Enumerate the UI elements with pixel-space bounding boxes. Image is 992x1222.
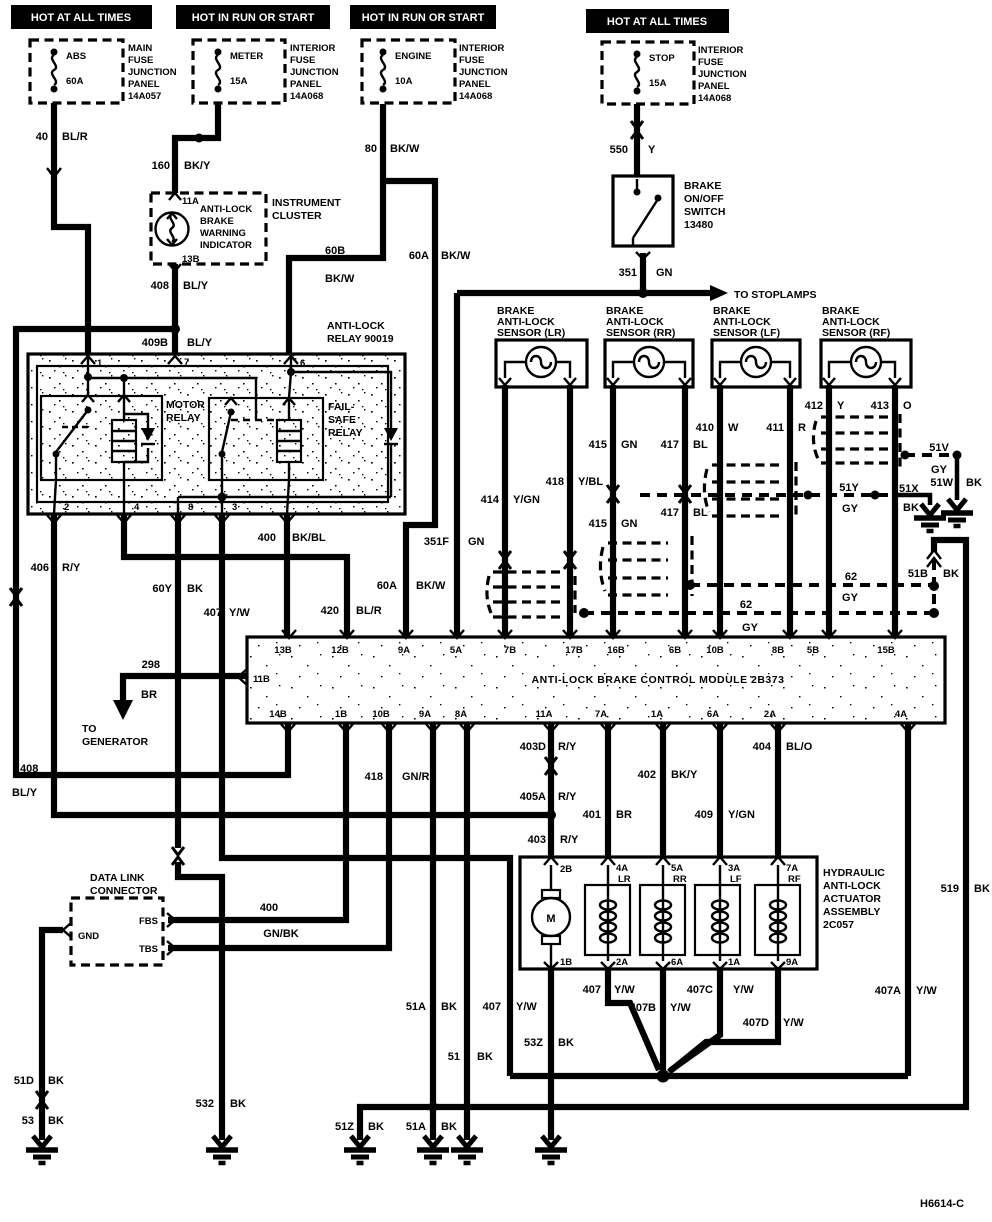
- solenoid valve LR: [585, 865, 630, 961]
- svg-text:8A: 8A: [455, 709, 467, 720]
- motor relay diode: [124, 414, 155, 462]
- wire 400 BK/BL from relay pin 5 to module pin 13B: [258, 514, 326, 637]
- svg-text:11B: 11B: [253, 674, 270, 685]
- svg-text:5A: 5A: [450, 645, 462, 656]
- wire 51A BK module pin 9A to ground: [406, 723, 457, 1140]
- relay pin 4: [117, 502, 140, 523]
- actuator pin 7A RF: [771, 857, 801, 885]
- wire 415 GN sensor RR to module pin 16B: [589, 385, 638, 637]
- svg-text:15A: 15A: [230, 76, 248, 87]
- label BRAKE ON/OFF SWITCH 13480: [684, 180, 725, 231]
- svg-text:60A: 60A: [409, 250, 429, 262]
- svg-text:BK: BK: [974, 883, 990, 895]
- svg-text:GN: GN: [621, 439, 638, 451]
- svg-text:4: 4: [134, 502, 140, 513]
- wire 414 Y/GN sensor LR to module pin 7B: [481, 385, 540, 637]
- svg-text:40: 40: [36, 131, 48, 143]
- splice node 407 common: [510, 1070, 908, 1083]
- svg-text:401: 401: [583, 809, 601, 821]
- ground 53Z: [535, 1136, 567, 1163]
- svg-text:410: 410: [696, 422, 714, 434]
- svg-text:BL: BL: [693, 439, 708, 451]
- module pin 5A: [450, 630, 464, 656]
- relay pin 5: [280, 515, 294, 523]
- module pin 8B: [772, 630, 797, 656]
- module pin 1B: [335, 709, 353, 732]
- svg-text:HOT IN RUN OR START: HOT IN RUN OR START: [362, 12, 485, 24]
- pump motor M: [532, 865, 570, 969]
- module pin 5B: [807, 630, 836, 656]
- svg-text:407D: 407D: [743, 1017, 769, 1029]
- svg-text:1B: 1B: [560, 957, 572, 968]
- svg-text:BL: BL: [693, 507, 708, 519]
- svg-text:11A: 11A: [182, 196, 199, 207]
- svg-text:INTERIOR: INTERIOR: [698, 45, 744, 56]
- wire 532 BK continuation to ground: [178, 862, 246, 1140]
- data link connector: [63, 872, 163, 965]
- svg-text:418: 418: [365, 771, 383, 783]
- wire 407 Y/W solenoid LR return: [583, 969, 659, 1070]
- svg-text:Y: Y: [837, 400, 845, 412]
- wire to stoplamps with arrow: [457, 285, 816, 301]
- connector shield on sensor RR pair: [600, 536, 692, 596]
- svg-text:10B: 10B: [372, 709, 390, 720]
- svg-text:1A: 1A: [651, 709, 663, 720]
- svg-text:4A: 4A: [616, 863, 628, 874]
- wire 407C Y/W solenoid LF return: [671, 969, 754, 1070]
- svg-text:ON/OFF: ON/OFF: [684, 193, 724, 205]
- svg-text:15B: 15B: [877, 645, 895, 656]
- svg-text:JUNCTION: JUNCTION: [459, 67, 508, 78]
- svg-text:BK: BK: [48, 1115, 64, 1127]
- svg-text:SENSOR (LR): SENSOR (LR): [497, 327, 565, 339]
- svg-text:MAIN: MAIN: [128, 43, 152, 54]
- module pin 6A: [707, 709, 727, 732]
- wire 407B Y/W solenoid RR return: [630, 969, 692, 1070]
- svg-text:2: 2: [64, 502, 69, 513]
- relay pin 7: [168, 356, 189, 368]
- actuator pin 1B: [544, 957, 572, 969]
- svg-text:406: 406: [31, 562, 49, 574]
- svg-text:H6614-C: H6614-C: [920, 1198, 964, 1210]
- svg-text:51B: 51B: [908, 568, 928, 580]
- svg-text:WARNING: WARNING: [200, 228, 246, 239]
- label INTERIOR FUSE JUNCTION PANEL 14A068 (third): [459, 43, 508, 102]
- svg-text:2A: 2A: [616, 957, 628, 968]
- svg-text:BK/W: BK/W: [441, 250, 471, 262]
- svg-text:6: 6: [300, 358, 305, 369]
- svg-text:BR: BR: [141, 689, 157, 701]
- shield wire 51V GY dashed: [901, 442, 962, 476]
- svg-text:BK: BK: [187, 583, 203, 595]
- svg-text:ANTI-LOCK: ANTI-LOCK: [327, 320, 385, 332]
- svg-text:351: 351: [619, 267, 637, 279]
- svg-text:409B: 409B: [142, 337, 168, 349]
- svg-text:415: 415: [589, 518, 607, 530]
- svg-text:INDICATOR: INDICATOR: [200, 240, 252, 251]
- wire 412 Y sensor RF to module pin 5B: [805, 385, 845, 637]
- actuator pin 4A LR: [601, 857, 631, 885]
- svg-text:FAIL-: FAIL-: [328, 401, 355, 413]
- ground 51: [451, 1136, 483, 1163]
- wire 420 BL/R from relay pin 4 to module pin 12B: [124, 514, 382, 637]
- wire 51D BK / 53 BK data link ground: [14, 930, 64, 1140]
- relay diode right: [384, 428, 398, 497]
- wire 407 Y/W from relay pin 3 toward pump motor circuit: [204, 514, 538, 1076]
- svg-text:51Z: 51Z: [335, 1121, 354, 1133]
- svg-text:FUSE: FUSE: [290, 55, 315, 66]
- wire 413 O sensor RF to module pin 15B area: [871, 385, 912, 637]
- svg-text:51Y: 51Y: [839, 482, 859, 494]
- node splice on 408 circuit: [170, 324, 180, 334]
- svg-text:RELAY 90019: RELAY 90019: [327, 333, 394, 345]
- svg-text:402: 402: [638, 769, 656, 781]
- svg-text:2A: 2A: [764, 709, 776, 720]
- wire 404 BL/O module pin 2A to actuator: [753, 723, 813, 857]
- actuator pin 1A bottom: [713, 957, 740, 969]
- wire 418 Y/BL sensor LR to module pin 17B: [546, 385, 604, 637]
- svg-text:M: M: [546, 913, 555, 925]
- module pin 9A: [398, 630, 413, 656]
- svg-text:HOT AT ALL TIMES: HOT AT ALL TIMES: [31, 12, 131, 24]
- svg-text:GN/R: GN/R: [402, 771, 430, 783]
- svg-text:414: 414: [481, 494, 500, 506]
- module pin 10B: [706, 630, 727, 656]
- svg-text:BL/Y: BL/Y: [12, 787, 38, 799]
- instrument cluster anti-lock brake warning indicator: [151, 193, 266, 271]
- svg-text:GY: GY: [931, 464, 948, 476]
- svg-text:GY: GY: [742, 622, 759, 634]
- svg-text:METER: METER: [230, 51, 263, 62]
- svg-text:403D: 403D: [520, 741, 546, 753]
- hydraulic anti-lock actuator assembly box: [520, 857, 885, 969]
- svg-text:ENGINE: ENGINE: [395, 51, 431, 62]
- relay pin 8: [171, 502, 193, 523]
- svg-text:400: 400: [258, 532, 276, 544]
- motor relay box: [41, 396, 205, 480]
- wire 406 R/Y from relay pin 2 to splice at module 11A drop: [31, 514, 551, 815]
- svg-text:O: O: [903, 400, 912, 412]
- connector shield on sensor RF pair: [813, 414, 900, 468]
- svg-text:BK: BK: [368, 1121, 384, 1133]
- svg-text:INSTRUMENT: INSTRUMENT: [272, 197, 341, 209]
- svg-text:53Z: 53Z: [524, 1037, 543, 1049]
- module pin 1A: [651, 709, 670, 732]
- svg-text:ANTI-LOCK: ANTI-LOCK: [823, 880, 881, 892]
- motor relay coil: [112, 395, 136, 480]
- svg-text:160: 160: [152, 160, 170, 172]
- shield wire 51Y GY dashed: [640, 482, 893, 515]
- wire 407A Y/W module pin 4A to splice node: [875, 723, 938, 1076]
- svg-text:GN: GN: [621, 518, 638, 530]
- shield drain wire 51B BK dashed: [908, 550, 959, 618]
- svg-text:404: 404: [753, 741, 772, 753]
- svg-text:408: 408: [20, 763, 38, 775]
- svg-text:2B: 2B: [560, 864, 572, 875]
- actuator pin 3A LF: [713, 857, 742, 885]
- svg-text:Y/W: Y/W: [229, 607, 250, 619]
- svg-text:JUNCTION: JUNCTION: [290, 67, 339, 78]
- svg-text:RELAY: RELAY: [166, 412, 201, 424]
- node stoplamp junction: [638, 288, 648, 298]
- svg-text:Y/W: Y/W: [516, 1001, 537, 1013]
- wire 51 BK module pin 8A to ground: [448, 723, 493, 1140]
- svg-text:R/Y: R/Y: [558, 741, 577, 753]
- svg-text:15A: 15A: [649, 78, 667, 89]
- connector shield on sensor LR pair: [487, 572, 575, 617]
- svg-text:GND: GND: [78, 931, 99, 942]
- svg-text:BL/Y: BL/Y: [183, 280, 209, 292]
- module pin 4A: [895, 709, 915, 732]
- svg-text:BK: BK: [230, 1098, 246, 1110]
- fail-safe relay contact: [219, 398, 281, 480]
- svg-text:17B: 17B: [565, 645, 583, 656]
- svg-text:13B: 13B: [274, 645, 292, 656]
- svg-text:409: 409: [695, 809, 713, 821]
- relay internal wire pin 6 to coil and diode: [287, 356, 391, 428]
- wire 411 R sensor LF to module pin 8B: [766, 385, 806, 637]
- wire 80 BK/W from ENGINE fuse: [289, 104, 420, 354]
- svg-text:11A: 11A: [536, 709, 553, 720]
- svg-text:PANEL: PANEL: [459, 79, 491, 90]
- wire 409 Y/GN module pin 6A to actuator: [695, 723, 755, 857]
- svg-text:Y/W: Y/W: [733, 984, 754, 996]
- svg-text:ANTI-LOCK: ANTI-LOCK: [200, 204, 252, 215]
- svg-text:GY: GY: [842, 503, 859, 515]
- svg-text:14A068: 14A068: [459, 91, 492, 102]
- actuator pin 5A RR: [656, 857, 687, 885]
- wire 60Y BK from relay pin 8: [152, 514, 203, 865]
- svg-text:60A: 60A: [66, 76, 84, 87]
- svg-text:FBS: FBS: [139, 916, 158, 927]
- header HOT IN RUN OR START (second): [176, 5, 330, 29]
- wire 298 BR to generator: [113, 659, 246, 720]
- wire 53Z BK pump motor ground: [524, 969, 574, 1140]
- svg-text:Y/GN: Y/GN: [728, 809, 755, 821]
- wire 60A BK/W branch to module pin 9A: [377, 181, 471, 637]
- svg-text:7: 7: [184, 357, 189, 368]
- svg-text:BK/W: BK/W: [416, 580, 446, 592]
- svg-text:12B: 12B: [331, 645, 349, 656]
- svg-text:R: R: [798, 422, 806, 434]
- svg-text:420: 420: [321, 605, 339, 617]
- wire 417 BL sensor RR to module pin 6B: [661, 385, 708, 637]
- wire 407D Y/W solenoid RF return: [669, 969, 804, 1072]
- svg-text:51W: 51W: [930, 477, 953, 489]
- svg-text:LR: LR: [618, 874, 631, 885]
- svg-text:RELAY: RELAY: [328, 427, 363, 439]
- wire 519 BK right side ground run: [335, 540, 990, 1140]
- svg-text:407B: 407B: [630, 1002, 656, 1014]
- svg-text:BK: BK: [943, 568, 959, 580]
- svg-text:BK: BK: [48, 1075, 64, 1087]
- svg-text:1A: 1A: [728, 957, 740, 968]
- svg-text:CONNECTOR: CONNECTOR: [90, 885, 158, 897]
- actuator pin 9A bottom: [771, 957, 798, 969]
- module pin 16B: [606, 630, 625, 656]
- svg-text:413: 413: [871, 400, 889, 412]
- module pin 15B: [877, 630, 902, 656]
- label INTERIOR FUSE JUNCTION PANEL 14A068 (right): [698, 45, 747, 104]
- svg-text:INTERIOR: INTERIOR: [459, 43, 505, 54]
- svg-text:BK: BK: [966, 477, 982, 489]
- ground at 532 BK: [206, 1136, 238, 1163]
- svg-text:403: 403: [528, 834, 546, 846]
- svg-text:415: 415: [589, 439, 607, 451]
- relay internal bottom bus: [54, 480, 391, 514]
- svg-text:10B: 10B: [706, 645, 724, 656]
- solenoid valve RF: [755, 865, 800, 961]
- fuse METER 15A in interior fuse junction panel: [193, 40, 285, 103]
- svg-text:DATA LINK: DATA LINK: [90, 872, 145, 884]
- solenoid valve LF: [695, 865, 740, 961]
- svg-text:7B: 7B: [504, 645, 516, 656]
- brake anti-lock sensor (RF): [821, 305, 911, 387]
- svg-text:W: W: [728, 422, 739, 434]
- svg-text:BK: BK: [477, 1051, 493, 1063]
- svg-text:BR: BR: [616, 809, 632, 821]
- wire 40 BL/R from ABS fuse to relay pin 1: [36, 103, 88, 354]
- svg-text:407: 407: [583, 984, 601, 996]
- brake anti-lock sensor (LR): [496, 305, 587, 387]
- svg-text:GY: GY: [842, 592, 859, 604]
- ground 51A: [417, 1136, 449, 1163]
- svg-text:STOP: STOP: [649, 53, 675, 64]
- svg-text:BK: BK: [558, 1037, 574, 1049]
- label INTERIOR FUSE JUNCTION PANEL 14A068 (second): [290, 43, 339, 102]
- anti-lock relay assembly box: [28, 320, 405, 514]
- svg-text:51A: 51A: [406, 1001, 426, 1013]
- svg-text:SENSOR (LF): SENSOR (LF): [713, 327, 780, 339]
- svg-text:407C: 407C: [687, 984, 713, 996]
- svg-text:51D: 51D: [14, 1075, 34, 1087]
- svg-text:14B: 14B: [269, 709, 287, 720]
- svg-text:1B: 1B: [335, 709, 347, 720]
- svg-text:13B: 13B: [182, 254, 200, 265]
- ground 51Z: [344, 1136, 376, 1163]
- svg-text:HYDRAULIC: HYDRAULIC: [823, 867, 885, 879]
- brake anti-lock sensor (LF): [712, 305, 800, 387]
- svg-text:1: 1: [97, 358, 103, 369]
- header HOT AT ALL TIMES (left): [11, 5, 152, 29]
- svg-text:SAFE: SAFE: [328, 414, 356, 426]
- svg-text:351F: 351F: [424, 536, 449, 548]
- fail-safe relay box: [209, 398, 363, 480]
- svg-text:BL/O: BL/O: [786, 741, 813, 753]
- svg-text:550: 550: [610, 144, 628, 156]
- svg-text:405A: 405A: [520, 791, 546, 803]
- svg-text:INTERIOR: INTERIOR: [290, 43, 336, 54]
- fuse ABS 60A in main fuse junction panel: [30, 40, 123, 103]
- brake anti-lock sensor (RR): [605, 305, 693, 387]
- svg-text:10A: 10A: [395, 76, 413, 87]
- svg-text:SENSOR (RR): SENSOR (RR): [606, 327, 675, 339]
- module pin 13B: [274, 630, 296, 656]
- svg-text:6B: 6B: [669, 645, 681, 656]
- svg-text:PANEL: PANEL: [128, 79, 160, 90]
- module pin 14B: [269, 709, 295, 732]
- svg-text:JUNCTION: JUNCTION: [698, 69, 747, 80]
- svg-text:519: 519: [941, 883, 959, 895]
- header HOT AT ALL TIMES (right): [586, 9, 729, 33]
- wire 60B BK/W into relay pin 6: [325, 245, 355, 285]
- module pin 11B with arrow: [238, 669, 270, 685]
- relay pin 6: [284, 356, 305, 369]
- svg-text:4A: 4A: [895, 709, 907, 720]
- svg-text:GN/BK: GN/BK: [263, 928, 299, 940]
- svg-text:Y/GN: Y/GN: [513, 494, 540, 506]
- svg-text:417: 417: [661, 507, 679, 519]
- anti-lock brake control module 2B373: [247, 637, 945, 723]
- svg-text:BK: BK: [903, 502, 919, 514]
- svg-text:FUSE: FUSE: [128, 55, 153, 66]
- svg-text:BL/Y: BL/Y: [187, 337, 213, 349]
- svg-text:417: 417: [661, 439, 679, 451]
- svg-text:9A: 9A: [419, 709, 431, 720]
- module pin 10B bottom: [372, 709, 396, 732]
- svg-text:53: 53: [22, 1115, 34, 1127]
- svg-text:3A: 3A: [728, 863, 740, 874]
- svg-text:BK: BK: [441, 1121, 457, 1133]
- wire 410 W sensor LF to module pin 10B: [696, 385, 739, 637]
- svg-text:PANEL: PANEL: [290, 79, 322, 90]
- svg-text:PANEL: PANEL: [698, 81, 730, 92]
- svg-text:HOT IN RUN OR START: HOT IN RUN OR START: [192, 12, 315, 24]
- wire 351F GN to module pin 5A: [424, 293, 485, 637]
- svg-text:51: 51: [448, 1051, 460, 1063]
- svg-text:FUSE: FUSE: [459, 55, 484, 66]
- svg-text:9A: 9A: [398, 645, 410, 656]
- svg-text:BRAKE: BRAKE: [684, 180, 721, 192]
- svg-text:80: 80: [365, 143, 377, 155]
- relay pin 3: [215, 502, 237, 523]
- svg-text:7A: 7A: [786, 863, 798, 874]
- wire 403D/405A/403 R/Y module pin 11A to actuator pin 2B: [520, 723, 579, 857]
- ground 51W: [941, 499, 973, 526]
- module pin 8A bottom: [455, 709, 474, 732]
- svg-text:R/Y: R/Y: [62, 562, 81, 574]
- svg-text:Y/W: Y/W: [670, 1002, 691, 1014]
- wire 401 BR module pin 7A to actuator: [583, 723, 632, 857]
- svg-text:BK: BK: [441, 1001, 457, 1013]
- svg-text:400: 400: [260, 902, 278, 914]
- motor relay contact: [53, 395, 95, 480]
- module pin 9A bottom: [419, 709, 440, 732]
- wire 418 GN/R module pin 10B to data link connector: [167, 723, 430, 955]
- wire 51X BK to ground: [893, 483, 930, 514]
- svg-text:ABS: ABS: [66, 51, 86, 62]
- module pin 2A: [764, 709, 785, 732]
- svg-text:60B: 60B: [325, 245, 345, 257]
- svg-text:TBS: TBS: [139, 944, 158, 955]
- svg-text:BK/W: BK/W: [390, 143, 420, 155]
- fuse ENGINE 10A in interior fuse junction panel: [362, 40, 455, 103]
- svg-text:7A: 7A: [595, 709, 607, 720]
- svg-text:6A: 6A: [707, 709, 719, 720]
- actuator pin 6A bottom: [656, 957, 683, 969]
- svg-text:14A068: 14A068: [698, 93, 731, 104]
- svg-text:GENERATOR: GENERATOR: [82, 736, 149, 748]
- brake on/off switch 13480: [613, 176, 673, 259]
- svg-text:51X: 51X: [899, 483, 919, 495]
- svg-text:SWITCH: SWITCH: [684, 206, 725, 218]
- shield wire 62 GY dashed upper: [685, 571, 934, 604]
- svg-text:BL/R: BL/R: [62, 131, 88, 143]
- svg-text:R/Y: R/Y: [560, 834, 579, 846]
- svg-text:Y/BL: Y/BL: [578, 476, 603, 488]
- svg-text:14A057: 14A057: [128, 91, 161, 102]
- svg-text:TO STOPLAMPS: TO STOPLAMPS: [734, 289, 816, 301]
